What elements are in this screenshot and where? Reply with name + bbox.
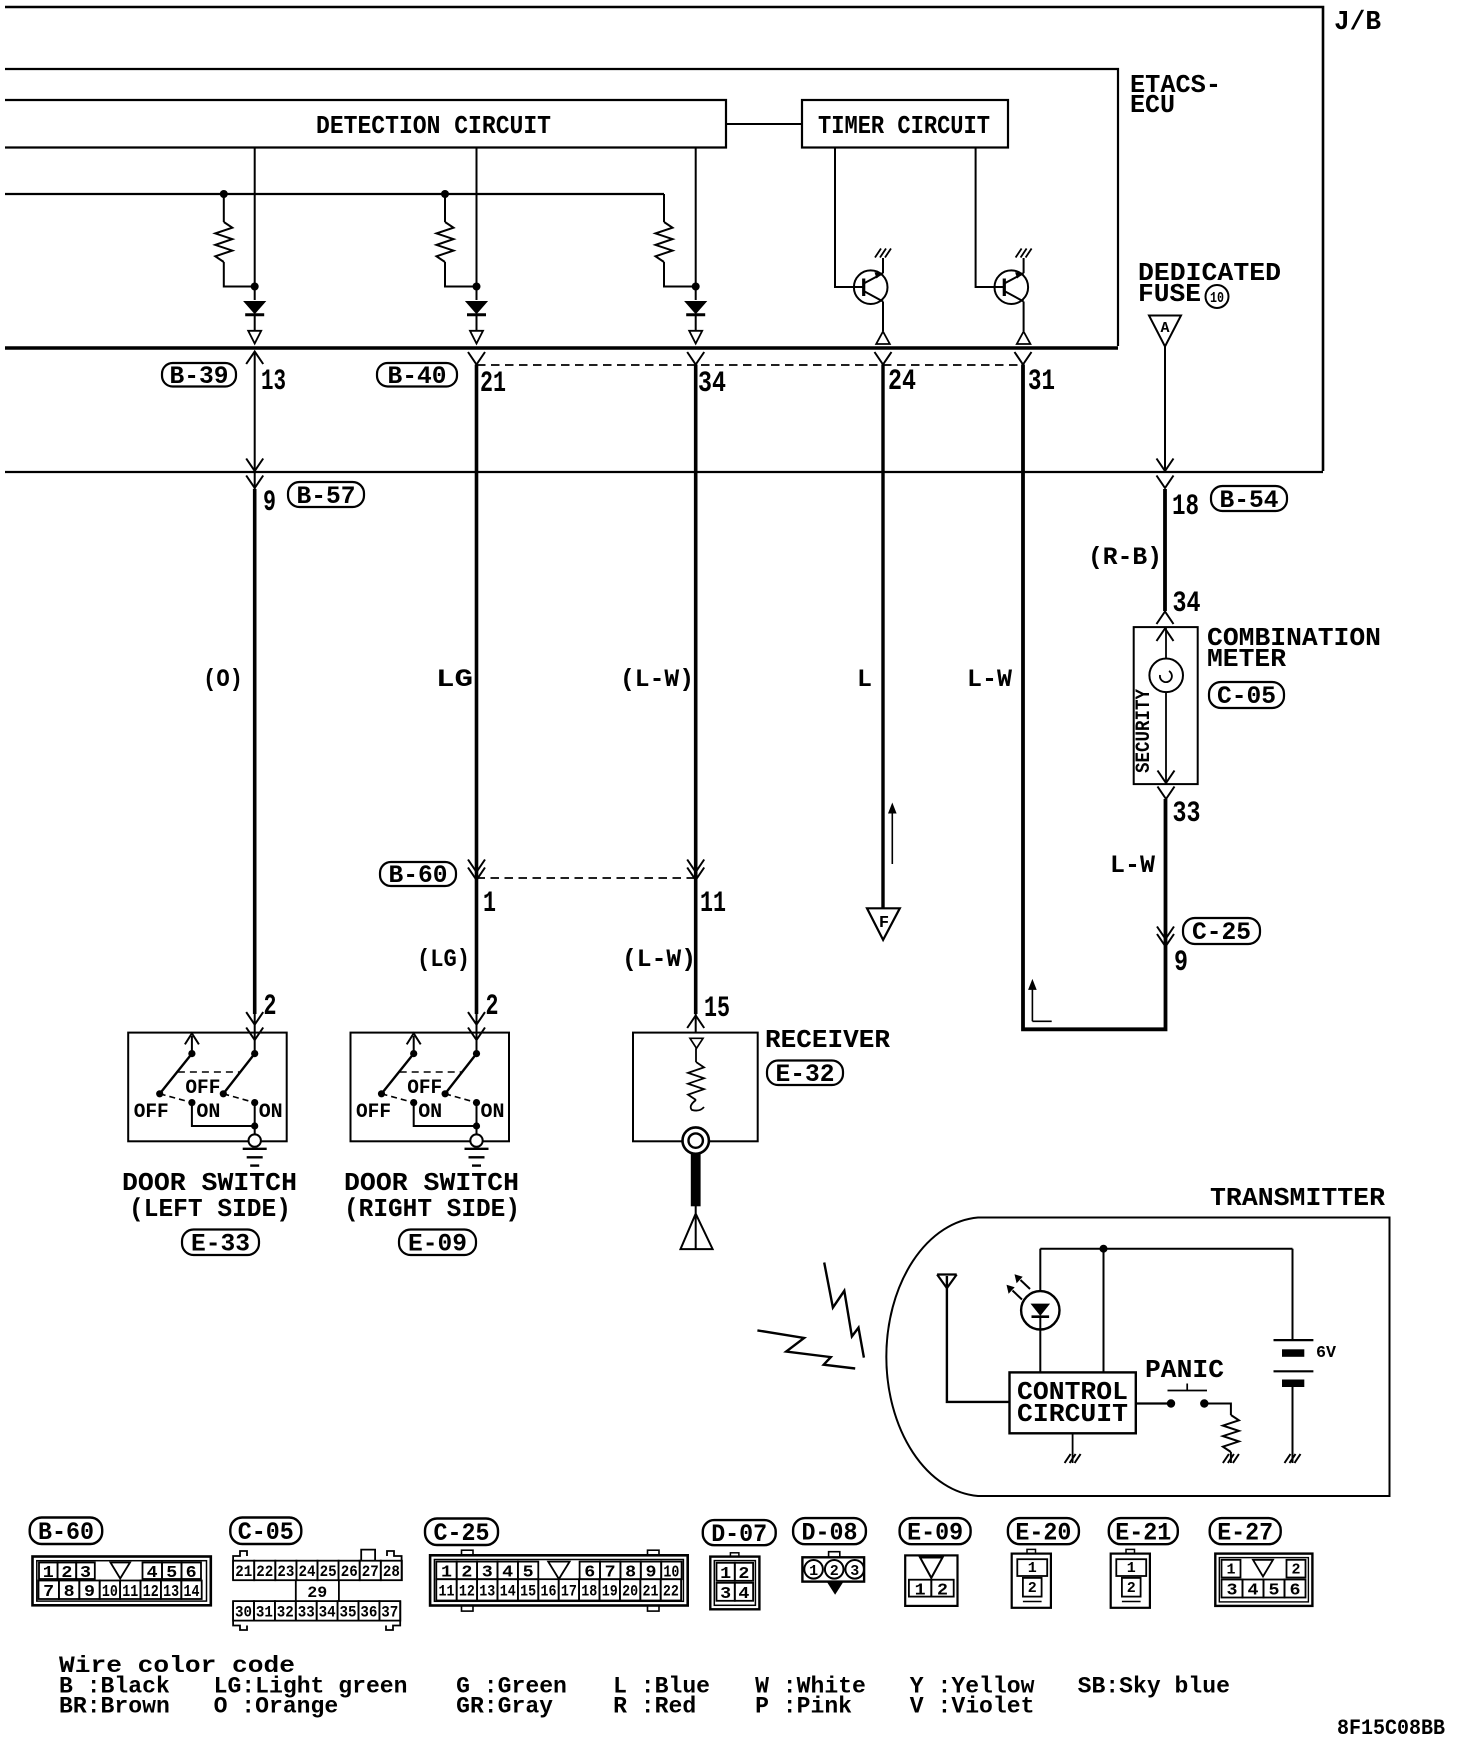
switch contacts [410,1050,417,1057]
svg-text:B-60: B-60 [389,861,448,890]
svg-text:B-54: B-54 [1220,486,1279,515]
wire inside meter [1165,627,1167,784]
svg-text:R :Red: R :Red [613,1694,696,1720]
svg-text:33: 33 [1173,797,1201,831]
pin 33 combination meter [1158,771,1175,784]
svg-text:4: 4 [738,1585,749,1604]
wire 33 thick L-W [1164,799,1168,940]
svg-text:OFF: OFF [185,1077,220,1100]
svg-text:34: 34 [319,1604,336,1622]
svg-text:E-21: E-21 [1115,1518,1171,1547]
wire pin 31 chevron [1015,352,1032,365]
svg-text:24: 24 [888,365,916,399]
svg-text:(RIGHT SIDE): (RIGHT SIDE) [344,1194,520,1224]
panic switch [1136,1402,1171,1404]
door switch box E-09 [351,1033,510,1142]
svg-text:31: 31 [256,1604,273,1622]
svg-text:9: 9 [84,1583,95,1602]
antenna input symbol [690,1038,703,1048]
svg-text:V :Violet: V :Violet [910,1694,1035,1720]
terminal triangle Q1 [876,332,890,345]
connector B-60 pinout [30,1518,103,1545]
svg-text:6: 6 [1290,1582,1301,1601]
svg-text:1: 1 [720,1565,731,1584]
svg-text:17: 17 [561,1583,577,1601]
timer circuit box [802,100,1008,148]
detection circuit box [5,100,726,148]
battery 6V [1292,1249,1294,1340]
svg-text:14: 14 [184,1583,200,1602]
wire pin 21 chevron [468,352,485,365]
wire 34 thick (L-W) [694,365,698,1015]
svg-text:2: 2 [264,990,277,1024]
svg-text:2: 2 [1028,1580,1037,1597]
combination meter box [1134,627,1198,784]
svg-text:8F15C08BB: 8F15C08BB [1337,1716,1445,1740]
diode D1 [244,302,265,314]
svg-text:OFF: OFF [356,1101,391,1124]
svg-text:8: 8 [64,1583,75,1602]
svg-text:C-25: C-25 [434,1519,490,1548]
ground symbol [470,1134,482,1146]
svg-text:O :Orange: O :Orange [214,1694,339,1720]
svg-text:28: 28 [383,1563,400,1581]
svg-text:SB:Sky blue: SB:Sky blue [1078,1674,1230,1700]
connector E-21 pinout [1109,1518,1178,1544]
svg-text:E-09: E-09 [408,1230,467,1259]
dashed connector line B-60 [477,877,696,879]
connector C-05 pinout [230,1518,301,1545]
svg-text:GR:Gray: GR:Gray [456,1694,553,1720]
resistor R3 [663,194,665,222]
svg-text:F: F [879,914,889,933]
svg-text:C-05: C-05 [1217,682,1276,711]
svg-text:A: A [1160,320,1169,337]
wire timer circuit output 1 [835,148,864,288]
svg-text:21: 21 [480,367,506,401]
svg-text:L-W: L-W [1110,851,1155,880]
coaxial connector [683,1127,709,1153]
C-05 pin 29 cell [296,1580,339,1601]
connector B-57 [288,482,364,507]
svg-text:B-60: B-60 [38,1518,94,1547]
receiver box [633,1033,758,1142]
svg-text:10: 10 [1210,290,1224,307]
connector E-33 [182,1230,259,1256]
svg-text:E-32: E-32 [776,1060,835,1089]
fuse 10 triangle symbol [1149,316,1181,347]
connector arrows door switch right [476,1014,478,1054]
svg-text:12: 12 [459,1583,475,1601]
switch contacts [188,1050,195,1057]
wire pin 34 chevron [687,352,704,365]
connector B-54 [1211,486,1287,511]
svg-text:31: 31 [1028,365,1055,399]
svg-text:1: 1 [483,887,496,921]
junction node diode D2 anode [473,283,481,291]
svg-text:11: 11 [122,1583,138,1602]
direction arrow inside loop [1032,988,1051,1021]
svg-text:(LEFT SIDE): (LEFT SIDE) [129,1194,291,1224]
mechanical link dashed [178,1071,240,1073]
svg-text:D-08: D-08 [802,1518,858,1547]
svg-text:19: 19 [602,1583,618,1601]
svg-text:TRANSMITTER: TRANSMITTER [1210,1183,1385,1213]
switch pole arrow [191,1036,193,1054]
connector D-08 pinout [793,1518,866,1544]
connector B-39 [162,363,236,387]
terminal triangle Q2 [1017,332,1031,345]
svg-text:1: 1 [809,1563,818,1580]
svg-text:13: 13 [261,365,286,399]
svg-text:30: 30 [235,1604,252,1622]
svg-text:C-25: C-25 [1192,918,1251,947]
svg-text:21: 21 [643,1583,659,1601]
svg-text:35: 35 [340,1604,357,1622]
diode D3 [685,302,706,314]
svg-text:34: 34 [698,367,726,401]
svg-text:FUSE: FUSE [1138,279,1201,309]
power rail [1040,1248,1292,1250]
svg-text:3: 3 [720,1585,731,1604]
svg-text:SECURITY: SECURITY [1133,689,1156,773]
ground symbol [249,1134,261,1146]
svg-text:36: 36 [360,1604,377,1622]
connector C-25 pinout [425,1519,498,1546]
svg-text:1: 1 [1226,1562,1235,1579]
svg-text:13: 13 [479,1583,495,1601]
wire from detection circuit pin 1 [254,148,256,301]
transmitter case [886,1218,1389,1497]
svg-text:18: 18 [581,1583,597,1601]
collector lead to internal ground Q1 [882,258,884,273]
B-60 crossing pin 11 [687,860,704,873]
svg-text:2: 2 [738,1565,749,1584]
connector E-32 [767,1061,843,1086]
svg-text:9: 9 [263,486,276,520]
ETACS-ECU bottom border (thick) [5,346,1118,350]
svg-text:OFF: OFF [134,1101,169,1124]
connector D-07 pinout [703,1520,776,1545]
svg-text:6V: 6V [1316,1344,1337,1363]
svg-text:E-27: E-27 [1217,1518,1273,1547]
svg-text:B-40: B-40 [388,362,447,391]
switch blades [382,1054,414,1094]
svg-text:(L-W): (L-W) [622,945,696,974]
emitter lead Q1 [882,302,884,332]
svg-text:11: 11 [439,1583,455,1601]
svg-text:5: 5 [1269,1582,1280,1601]
junction node diode D3 anode [692,283,700,291]
svg-text:ON: ON [259,1101,283,1124]
svg-text:ON: ON [481,1101,505,1124]
svg-text:26: 26 [341,1563,358,1581]
svg-text:22: 22 [663,1583,679,1601]
svg-text:18: 18 [1172,490,1199,524]
svg-text:2: 2 [1291,1562,1300,1579]
switch pole arrow [413,1036,415,1054]
transistor Q1 [854,270,888,304]
wire 18 thick (R-B) [1163,489,1167,611]
svg-text:3: 3 [850,1563,859,1580]
svg-text:27: 27 [362,1563,379,1581]
svg-text:34: 34 [1173,587,1201,621]
door switch box E-33 [128,1033,287,1142]
terminal F triangle [867,908,900,940]
connector E-27 pinout [1210,1518,1281,1544]
connector E-20 pinout [1008,1518,1079,1544]
transmitter antenna [937,1275,957,1289]
wire internal bus y=194 [5,193,664,195]
svg-text:13: 13 [163,1583,179,1602]
svg-text:1: 1 [1028,1560,1037,1577]
wire from detection circuit pin 2 [476,148,478,301]
svg-text:B-39: B-39 [170,362,229,391]
SECURITY lamp [1149,659,1183,693]
terminal arrow (open) of diode D3 [689,331,702,344]
svg-text:TIMER CIRCUIT: TIMER CIRCUIT [818,111,990,141]
resistor R2 [441,190,449,198]
svg-text:10: 10 [102,1583,118,1602]
ETACS-ECU box [5,69,1118,346]
LED emission arrows [1013,1291,1023,1300]
wire 31 thick L-W loop [1023,365,1166,1030]
svg-text:1: 1 [915,1581,926,1600]
emitter lead Q2 [1023,302,1025,332]
svg-text:9: 9 [1174,946,1188,980]
svg-text:B-57: B-57 [297,482,356,511]
connector C-05 [1209,682,1284,708]
wire 13->door switch left, colour (O), thick [253,489,257,1014]
wire detection to timer [726,123,802,125]
LED D4 [1039,1249,1041,1292]
receiver connector arrow [695,1014,697,1033]
J/B bottom border [5,471,1323,473]
svg-text:L-W: L-W [967,665,1012,694]
svg-text:D-07: D-07 [711,1520,767,1549]
wire from detection circuit pin 3 [695,148,697,301]
svg-text:4: 4 [1248,1582,1259,1601]
svg-text:(O): (O) [203,665,243,694]
svg-text:L: L [857,665,872,694]
junction node [1100,1245,1108,1253]
wire 24 thick L [881,365,884,909]
svg-text:1: 1 [1127,1560,1136,1577]
svg-text:29: 29 [307,1584,327,1602]
svg-text:3: 3 [1227,1582,1238,1601]
svg-text:32: 32 [277,1604,294,1622]
svg-text:CIRCUIT: CIRCUIT [1017,1399,1128,1429]
svg-text:37: 37 [381,1604,398,1622]
svg-text:24: 24 [299,1563,316,1581]
terminal arrow (open) of diode D2 [470,331,483,344]
svg-text:33: 33 [298,1604,315,1622]
connector arrows door switch left [254,1014,256,1054]
control circuit ground [1072,1433,1074,1463]
svg-text:ECU: ECU [1130,90,1175,120]
J/B junction block box [5,7,1323,471]
svg-text:20: 20 [622,1583,638,1601]
svg-text:OFF: OFF [407,1077,442,1100]
svg-text:LG: LG [436,665,473,694]
diode D2 [466,302,487,314]
svg-text:16: 16 [541,1583,557,1601]
svg-text:RECEIVER: RECEIVER [765,1025,890,1055]
antenna [681,1206,713,1249]
connector B-60 crossing [380,862,456,886]
radio wave lightning 2 [757,1330,855,1368]
connector E-09 [399,1230,476,1256]
wire pin 24 chevron [875,352,892,365]
terminal arrow (open) of diode D1 [248,331,261,344]
control circuit box [1010,1372,1136,1433]
transistor Q2 [995,270,1029,304]
svg-text:2: 2 [1127,1580,1136,1597]
svg-text:15: 15 [704,992,730,1026]
wire 13 thin inside J/B [254,352,256,490]
wire timer circuit output 2 [976,148,1005,288]
svg-text:25: 25 [320,1563,337,1581]
wire pin13 arrow up [246,352,263,365]
direction arrow on wire 24 [891,812,893,864]
svg-text:21: 21 [235,1563,252,1581]
svg-text:C-05: C-05 [238,1518,294,1547]
wire to ground [192,1103,255,1126]
dashed connector line B-40 row [477,364,1023,366]
svg-text:E-33: E-33 [191,1230,250,1259]
svg-text:ON: ON [418,1101,442,1124]
antenna feeder (thick) [691,1154,701,1207]
svg-text:2: 2 [830,1563,839,1580]
connector E-09 pinout [900,1518,971,1544]
svg-text:BR:Brown: BR:Brown [59,1694,170,1720]
wire to ground [414,1103,477,1126]
svg-text:12: 12 [143,1583,159,1602]
svg-text:(LG): (LG) [417,945,470,974]
svg-text:(L-W): (L-W) [620,665,694,694]
svg-text:22: 22 [256,1563,273,1581]
mechanical link dashed [400,1071,462,1073]
connector B-40 [377,363,457,387]
collector lead to internal ground Q2 [1023,258,1025,273]
svg-text:E-20: E-20 [1015,1518,1071,1547]
svg-text:14: 14 [500,1583,516,1601]
svg-text:2: 2 [937,1581,948,1600]
svg-text:E-09: E-09 [907,1518,963,1547]
svg-text:7: 7 [43,1583,54,1602]
connector C-25 crossing [1183,918,1260,944]
switch blades [160,1054,192,1094]
junction node diode D1 anode [251,283,259,291]
svg-text:23: 23 [277,1563,294,1581]
svg-text:P :Pink: P :Pink [755,1694,852,1720]
svg-text:ON: ON [196,1101,220,1124]
svg-text:METER: METER [1207,644,1286,674]
resistor R4 [1204,1404,1231,1416]
wire 21 thick LG [475,365,479,1015]
svg-text:J/B: J/B [1334,8,1381,38]
resistor R1 [220,190,228,198]
svg-text:DETECTION CIRCUIT: DETECTION CIRCUIT [316,111,551,141]
radio wave lightning 1 [824,1263,864,1358]
svg-text:(R-B): (R-B) [1088,543,1162,572]
svg-text:2: 2 [486,990,499,1024]
svg-text:11: 11 [700,887,726,921]
wire fuse to J/B bottom [1164,347,1166,473]
svg-text:15: 15 [520,1583,536,1601]
svg-text:PANIC: PANIC [1145,1355,1224,1385]
